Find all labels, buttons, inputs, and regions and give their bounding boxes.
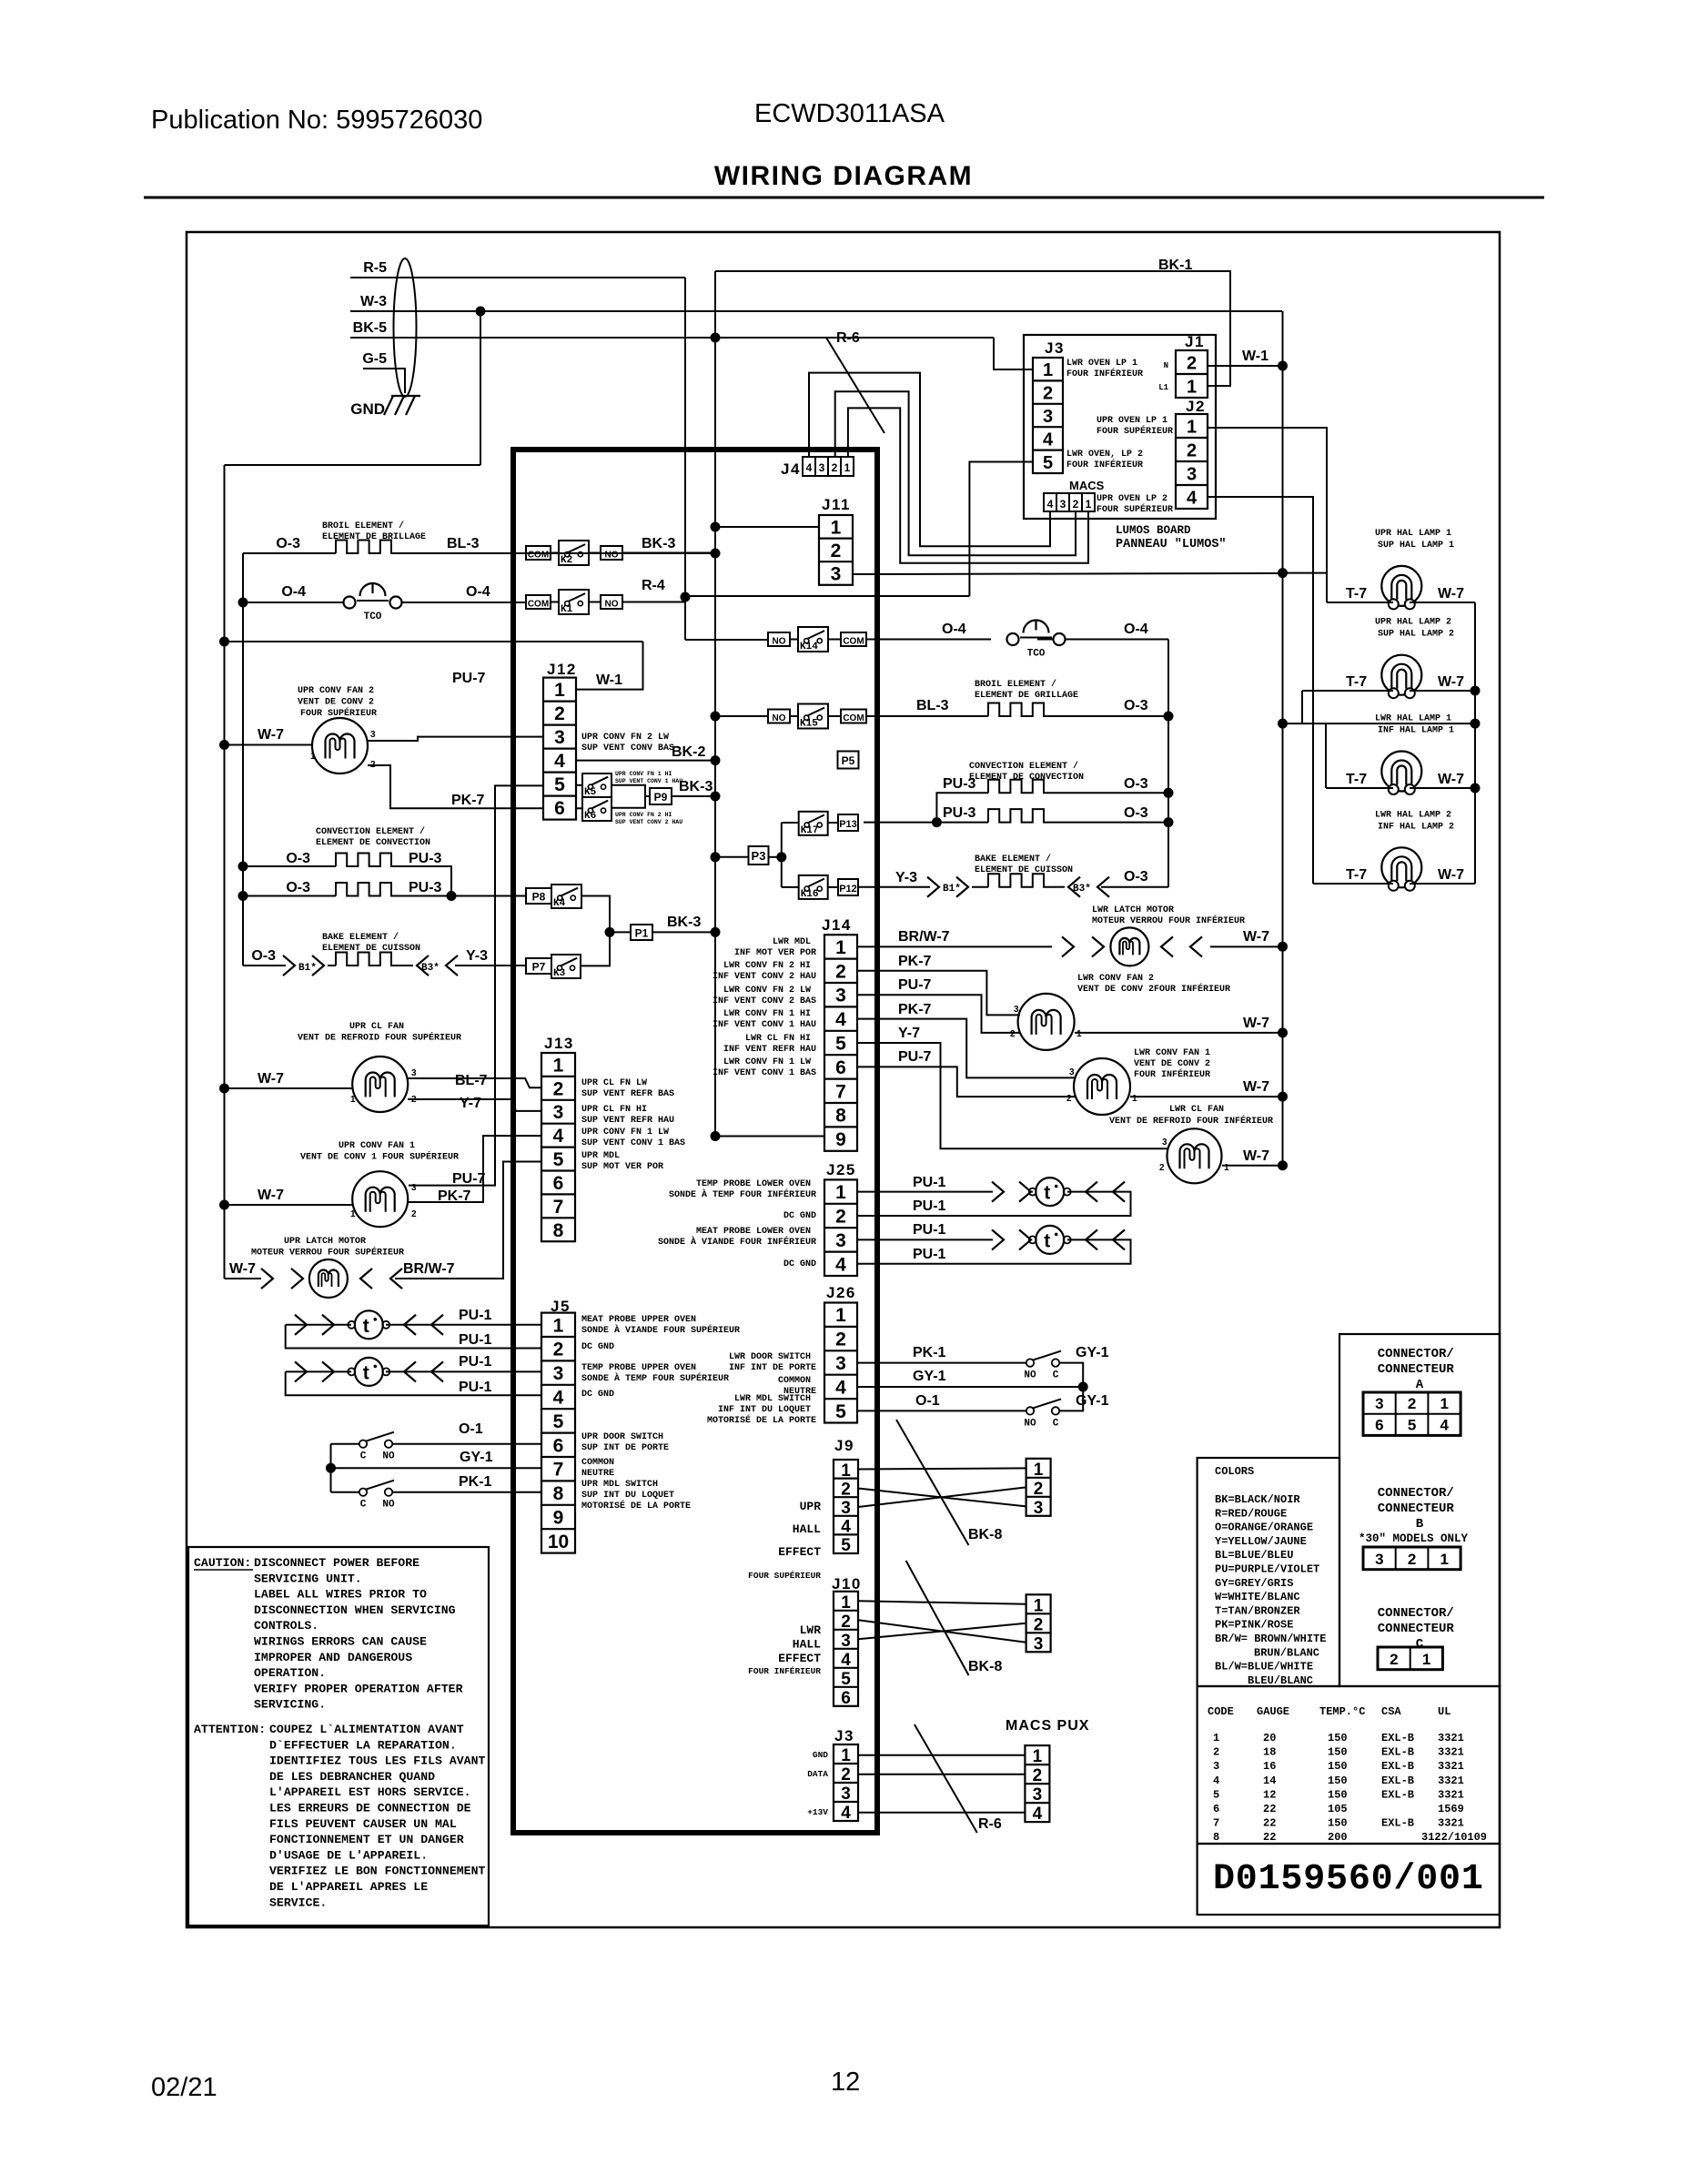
svg-text:NO: NO — [382, 1500, 395, 1511]
svg-text:LWR CL FAN: LWR CL FAN — [1169, 1105, 1224, 1115]
svg-text:J3: J3 — [1045, 339, 1065, 357]
svg-text:J10: J10 — [832, 1575, 862, 1592]
svg-text:W-7: W-7 — [1438, 772, 1464, 787]
TCO upper — [344, 583, 402, 622]
svg-text:1: 1 — [553, 1056, 564, 1077]
svg-text:O-3: O-3 — [251, 948, 276, 964]
wire O-3 broil element row (upper oven) — [243, 541, 715, 554]
svg-text:Y-7: Y-7 — [898, 1026, 920, 1041]
svg-text:PU-1: PU-1 — [459, 1380, 492, 1395]
svg-text:COMMON NEUTRE: COMMON NEUTRE — [581, 1458, 620, 1479]
svg-text:6: 6 — [553, 1173, 564, 1194]
wire J11-3 to lamp feed — [853, 573, 1283, 574]
svg-text:1: 1 — [1422, 1651, 1430, 1668]
svg-text:PK-7: PK-7 — [898, 1002, 932, 1017]
svg-text:2: 2 — [553, 1340, 564, 1360]
relay K3 — [551, 955, 581, 979]
svg-text:2: 2 — [1408, 1551, 1416, 1568]
svg-text:5: 5 — [835, 1401, 846, 1422]
svg-text:3: 3 — [1014, 1005, 1019, 1015]
svg-text:R-5: R-5 — [363, 260, 387, 276]
svg-text:PU-7: PU-7 — [452, 1171, 486, 1187]
wire J5-3 temp probe loop — [286, 1371, 541, 1395]
wire J12-5 to UPR CONV FAN 1 pin3 (PU-7) — [409, 785, 543, 1185]
svg-text:1: 1 — [841, 1746, 851, 1765]
svg-text:O-1: O-1 — [915, 1393, 940, 1409]
svg-text:UPR CONV FN 2 HI SUP VENT CONV: UPR CONV FN 2 HI SUP VENT CONV 2 HAU — [615, 812, 682, 825]
wire P1 BK-3 to trunk — [652, 931, 715, 933]
arrows meat probe upper — [295, 1315, 443, 1335]
svg-text:8: 8 — [835, 1106, 846, 1127]
motor LWR CONV FAN 2 — [1018, 994, 1075, 1050]
wire J9-1 to mate-1 — [858, 1468, 1026, 1469]
motor LWR LATCH MOTOR — [1110, 927, 1148, 966]
svg-text:J13: J13 — [544, 1035, 574, 1052]
svg-text:4: 4 — [806, 461, 813, 474]
trunk W-3/W-1 right x=1409.5 — [1278, 311, 1288, 1170]
svg-text:C: C — [360, 1500, 367, 1511]
wire J14-1 BR/W-7 lower latch row — [857, 945, 1283, 947]
wire J9-2 to mate-3 (cross) — [858, 1489, 1026, 1507]
arrows lower latch right — [1161, 936, 1202, 956]
svg-text:4: 4 — [841, 1518, 851, 1537]
wire J3-4 to MACS PUX 4 — [858, 1812, 1025, 1814]
svg-text:BK-8: BK-8 — [968, 1659, 1002, 1674]
svg-text:1: 1 — [1440, 1551, 1449, 1568]
meat probe lower oven — [1029, 1226, 1071, 1254]
svg-text:W-7: W-7 — [1243, 1016, 1269, 1031]
svg-text:BL/W=BLUE/WHITE: BL/W=BLUE/WHITE — [1215, 1661, 1313, 1673]
wires K5/K6 to P9 — [576, 785, 650, 809]
svg-text:2: 2 — [1187, 441, 1197, 461]
svg-text:K4: K4 — [553, 898, 566, 909]
svg-text:PU-3: PU-3 — [943, 805, 976, 821]
svg-text:LWR LATCH MOTOR: LWR LATCH MOTOR — [1092, 905, 1174, 915]
connector J3 (Lumos) — [1033, 358, 1063, 473]
trunk R-5 x=753.4 — [681, 278, 691, 640]
svg-text:P13: P13 — [839, 819, 857, 830]
temp probe upper oven — [348, 1358, 389, 1386]
wire P3 junction riser — [711, 823, 787, 887]
wire conv row2 lower — [864, 809, 1168, 827]
wire J4-2 to MACS-2 — [835, 391, 1076, 555]
svg-text:W-7: W-7 — [1243, 1148, 1269, 1164]
svg-text:COM: COM — [528, 600, 549, 610]
svg-text:NO: NO — [1024, 1418, 1036, 1429]
svg-text:LWR CONV FAN 1 VENT DE CONV 2: LWR CONV FAN 1 VENT DE CONV 2 FOUR INFÉR… — [1134, 1048, 1216, 1080]
arrows upper latch left — [261, 1269, 303, 1289]
connector J13 — [541, 1053, 575, 1241]
svg-text:3: 3 — [1043, 407, 1053, 427]
svg-text:4: 4 — [553, 1126, 564, 1147]
svg-text:3: 3 — [553, 1363, 564, 1384]
svg-text:EFFECT: EFFECT — [778, 1652, 821, 1665]
svg-text:W-7: W-7 — [258, 1188, 284, 1203]
wire J5-8 mdl switch PK-1 — [392, 1491, 541, 1493]
svg-text:K1: K1 — [561, 604, 573, 615]
wire K17-P13 row — [782, 822, 838, 824]
svg-text:t: t — [1044, 1183, 1050, 1204]
riser lamp1 x=1458 — [1326, 428, 1328, 602]
trunk left (W-7 common) x=246.5 — [219, 465, 229, 1279]
svg-text:MACS: MACS — [1069, 479, 1105, 492]
svg-text:3: 3 — [1187, 465, 1197, 485]
cable bundle ellipse — [394, 258, 417, 397]
switch LWR MDL SWITCH — [1024, 1399, 1061, 1429]
wire J12-6 PK-7 from UPR CONV FAN 2 pin2 — [368, 765, 543, 808]
svg-text:6: 6 — [1375, 1417, 1383, 1434]
svg-text:4: 4 — [1033, 1805, 1043, 1824]
svg-text:1: 1 — [1440, 1395, 1449, 1412]
svg-text:3: 3 — [411, 1068, 417, 1078]
svg-text:3: 3 — [411, 1183, 417, 1193]
connector J11 — [819, 515, 853, 585]
svg-text:7: 7 — [553, 1197, 564, 1218]
svg-text:1: 1 — [1034, 1596, 1044, 1615]
svg-text:J4: J4 — [781, 460, 801, 478]
svg-text:6: 6 — [835, 1057, 846, 1078]
svg-text:3: 3 — [841, 1632, 851, 1651]
wire J10-3 to mate-2 (cross) — [858, 1623, 1026, 1640]
svg-text:C: C — [1053, 1418, 1059, 1429]
svg-text:1: 1 — [1033, 1747, 1043, 1766]
wire J14-3 PU-7 to LWR CONV FAN 2 pin2 — [857, 995, 1020, 1033]
svg-text:1: 1 — [835, 1182, 846, 1203]
svg-text:J1: J1 — [1185, 333, 1205, 350]
svg-text:J2: J2 — [1186, 398, 1206, 415]
svg-text:P5: P5 — [842, 754, 855, 767]
relay K16 — [799, 875, 828, 900]
CAUTION text block — [194, 1556, 492, 1909]
svg-text:PK-1: PK-1 — [913, 1345, 946, 1360]
wire J2-4 to lamp4 riser — [1208, 497, 1313, 884]
svg-text:2: 2 — [554, 703, 565, 724]
connector J9 mate — [1026, 1459, 1051, 1518]
svg-text:PU-1: PU-1 — [459, 1332, 492, 1348]
motor UPR CL FAN — [352, 1057, 408, 1112]
outer diagram border — [187, 232, 1500, 1927]
svg-text:TCO: TCO — [364, 612, 382, 622]
slash BK-8 (J10) — [906, 1561, 969, 1675]
svg-text:9: 9 — [835, 1129, 846, 1150]
slash R-6 (top) — [826, 338, 884, 433]
wire lamp2 pins — [1302, 690, 1475, 692]
svg-text:Y-7: Y-7 — [460, 1096, 481, 1111]
svg-text:3: 3 — [1069, 1067, 1075, 1077]
wire J14-4 PK-7 to LWR CONV FAN 1 pin3 — [857, 1019, 1076, 1078]
NO box K2 — [601, 546, 622, 561]
node broil/trunk lower — [1164, 712, 1174, 722]
svg-text:HALL: HALL — [793, 1638, 821, 1652]
wire K1 row to R-5 trunk and J3-5 riser — [551, 596, 969, 602]
svg-text:2: 2 — [835, 1330, 846, 1350]
svg-text:LWR CONV FN 2 HI INF VENT CONV: LWR CONV FN 2 HI INF VENT CONV 2 HAU — [713, 961, 816, 982]
connector legend box — [1339, 1334, 1500, 1686]
svg-text:P3: P3 — [752, 849, 766, 863]
svg-text:K15: K15 — [800, 719, 818, 730]
svg-text:4: 4 — [835, 1377, 846, 1398]
switch UPR MDL SWITCH — [359, 1481, 395, 1511]
svg-text:GY-1: GY-1 — [460, 1450, 493, 1465]
lamp UPR HAL LAMP 2 — [1381, 655, 1421, 699]
wire J25-3 meat probe lower loop — [857, 1239, 1131, 1263]
svg-text:5: 5 — [553, 1149, 564, 1170]
wire conv element row1 (upper) — [243, 854, 451, 896]
connector J4 — [803, 457, 854, 476]
svg-text:4: 4 — [1440, 1417, 1450, 1434]
svg-text:2: 2 — [411, 1209, 417, 1219]
connector J3 (board) — [834, 1744, 858, 1823]
title rule — [144, 197, 1544, 199]
connector J9 — [834, 1460, 858, 1555]
svg-text:K17: K17 — [801, 825, 819, 836]
svg-text:4: 4 — [1047, 498, 1054, 511]
svg-text:O-3: O-3 — [286, 880, 310, 895]
svg-text:2: 2 — [1010, 1029, 1016, 1039]
CONNECTOR B legend — [1359, 1486, 1469, 1570]
svg-text:VENT DE REFROID FOUR INFÉRIEUR: VENT DE REFROID FOUR INFÉRIEUR — [1109, 1114, 1273, 1127]
relay K17 — [799, 812, 828, 836]
svg-text:C: C — [1053, 1370, 1059, 1381]
svg-text:DC GND: DC GND — [581, 1342, 614, 1352]
svg-text:2: 2 — [841, 1480, 851, 1499]
svg-text:ECWD3011ASA: ECWD3011ASA — [754, 99, 945, 128]
wire J3-1 to MACS PUX 1 — [858, 1754, 1025, 1756]
svg-text:O-4: O-4 — [942, 622, 966, 637]
svg-text:W-7: W-7 — [1438, 586, 1464, 602]
wire W-7 to UPR CONV FAN 1 — [225, 1204, 353, 1206]
wire J26-4 GY-1 common — [857, 1382, 1088, 1392]
COM box K15 — [841, 710, 866, 724]
svg-text:5: 5 — [554, 774, 565, 795]
svg-text:UPR DOOR SWITCH SUP INT DE POR: UPR DOOR SWITCH SUP INT DE PORTE — [581, 1432, 669, 1453]
svg-text:PANNEAU "LUMOS": PANNEAU "LUMOS" — [1116, 538, 1227, 551]
svg-text:Y-3: Y-3 — [895, 870, 917, 885]
svg-text:P9: P9 — [654, 791, 668, 804]
svg-text:1: 1 — [350, 1209, 356, 1219]
COM box K14 — [841, 632, 866, 647]
wire BK-1 to Lumos J1-L1 — [715, 271, 1230, 386]
svg-text:5: 5 — [841, 1670, 851, 1689]
svg-text:O-4: O-4 — [281, 584, 306, 600]
wire bake row (upper oven) — [243, 953, 526, 966]
arrow B3* lower — [1068, 877, 1109, 897]
svg-text:5: 5 — [841, 1536, 851, 1555]
svg-text:J3: J3 — [834, 1727, 854, 1744]
temp probe lower oven — [1029, 1178, 1071, 1206]
svg-text:DATA: DATA — [807, 1769, 828, 1779]
svg-text:PU-1: PU-1 — [913, 1198, 946, 1214]
svg-text:P8: P8 — [532, 891, 546, 904]
svg-text:3: 3 — [1162, 1137, 1167, 1148]
wire J10-1 to mate-1 — [858, 1601, 1026, 1604]
svg-text:4: 4 — [835, 1009, 846, 1030]
svg-text:3: 3 — [553, 1102, 564, 1123]
connector J26 — [824, 1303, 857, 1423]
wire lamp3 pins — [1326, 787, 1475, 789]
svg-text:3: 3 — [835, 1230, 846, 1251]
svg-text:P12: P12 — [839, 884, 857, 895]
svg-text:BK-3: BK-3 — [679, 779, 713, 794]
svg-text:LUMOS BOARD: LUMOS BOARD — [1116, 524, 1191, 537]
svg-text:3: 3 — [831, 564, 842, 585]
svg-text:8: 8 — [553, 1483, 564, 1504]
wire J4-1 to MACS-1 — [848, 408, 1088, 562]
connector J12 — [543, 678, 576, 820]
wire J4-4 to MACS-4 — [809, 373, 1050, 547]
wire W-3 supply — [350, 310, 1282, 312]
svg-text:4: 4 — [835, 1254, 846, 1275]
drawing number box — [1198, 1844, 1500, 1915]
svg-text:3: 3 — [370, 730, 376, 740]
svg-text:NO: NO — [382, 1451, 395, 1462]
wire conv element row2 (upper) — [243, 883, 526, 901]
wire lamp4 pins — [1313, 883, 1475, 885]
node W-3 junction at x=528 — [225, 307, 486, 466]
connector J1 — [1176, 350, 1208, 398]
meat probe upper oven — [348, 1310, 389, 1339]
connector J25 — [824, 1179, 857, 1276]
connector MACS PUX — [1025, 1745, 1049, 1824]
wire J14-6 PU-7 to LWR CONV FAN 1 pin2 — [857, 1067, 1076, 1097]
svg-text:O-3: O-3 — [286, 851, 310, 866]
svg-text:T-7: T-7 — [1346, 674, 1367, 690]
svg-text:7: 7 — [835, 1081, 846, 1102]
wire conv row1 lower — [936, 780, 1168, 823]
relay K5 — [582, 773, 612, 798]
arrows lower latch left — [1062, 936, 1104, 956]
svg-text:t: t — [363, 1362, 369, 1383]
svg-text:UPR CONV FN 2 LW SUP VENT CONV: UPR CONV FN 2 LW SUP VENT CONV BAS — [581, 733, 674, 753]
svg-text:BK-3: BK-3 — [642, 536, 675, 551]
wire J3-2 to MACS PUX 2 — [858, 1774, 1025, 1775]
ground symbol GND — [350, 396, 420, 418]
svg-text:K2: K2 — [561, 555, 572, 566]
svg-text:10: 10 — [548, 1532, 569, 1552]
svg-text:UPR: UPR — [800, 1500, 822, 1513]
svg-text:2: 2 — [1043, 384, 1053, 404]
relay K15 — [798, 704, 828, 730]
svg-text:2: 2 — [1034, 1480, 1044, 1499]
svg-text:K3: K3 — [553, 968, 566, 979]
svg-text:B3*: B3* — [1073, 884, 1091, 895]
svg-text:9: 9 — [553, 1508, 564, 1529]
svg-text:1: 1 — [1043, 360, 1053, 380]
wire BL-7 fan to J13-2 — [408, 1078, 541, 1087]
motor UPR LATCH MOTOR — [309, 1259, 348, 1298]
svg-text:BK-5: BK-5 — [353, 320, 387, 336]
svg-text:2: 2 — [370, 760, 376, 770]
svg-text:COM: COM — [843, 637, 864, 647]
svg-text:N: N — [1164, 361, 1168, 370]
wire J14-5 Y-7 to LWR CL FAN pin3 — [857, 1043, 1168, 1148]
svg-text:5: 5 — [1408, 1417, 1416, 1434]
svg-text:L1: L1 — [1158, 383, 1168, 392]
svg-text:K14: K14 — [800, 642, 818, 652]
svg-text:O-3: O-3 — [1124, 805, 1148, 821]
control board (thick box) — [513, 450, 877, 1833]
svg-text:t: t — [1044, 1230, 1050, 1251]
svg-text:3: 3 — [1060, 498, 1066, 511]
svg-text:J11: J11 — [822, 496, 851, 513]
wire J2-1 to lamp1 riser — [1208, 428, 1327, 602]
connector J10 mate — [1026, 1594, 1051, 1653]
wire code table box — [1198, 1686, 1500, 1844]
P13 box — [838, 814, 858, 831]
svg-text:B1*: B1* — [943, 884, 961, 895]
wire J25-1 temp probe lower loop — [857, 1192, 1131, 1216]
svg-text:2: 2 — [1159, 1163, 1165, 1173]
svg-text:BK-2: BK-2 — [672, 744, 705, 760]
COM box K2 — [526, 546, 551, 561]
svg-text:BL-3: BL-3 — [447, 536, 480, 551]
svg-text:4: 4 — [841, 1804, 851, 1823]
svg-text:J9: J9 — [834, 1437, 854, 1454]
svg-text:GY-1: GY-1 — [1076, 1393, 1109, 1409]
wire O-4 TCO row (upper oven) — [243, 602, 526, 603]
svg-text:W-1: W-1 — [596, 672, 622, 688]
arrow B1* (upper bake) — [283, 955, 324, 976]
svg-text:4: 4 — [554, 751, 565, 772]
svg-text:COM: COM — [528, 551, 549, 561]
wire fan LWR CONV 2 pin1 to trunk — [1075, 1032, 1283, 1034]
svg-text:PU-1: PU-1 — [459, 1308, 492, 1323]
svg-text:1: 1 — [1132, 1094, 1137, 1104]
svg-text:2: 2 — [1408, 1395, 1416, 1412]
svg-text:O-3: O-3 — [1124, 776, 1148, 792]
svg-text:2: 2 — [553, 1078, 564, 1099]
wire K3 to P1 junction — [581, 932, 610, 966]
wire BK-5 to Lumos J3-1 — [994, 338, 1033, 369]
svg-text:GND: GND — [350, 400, 385, 418]
motor UPR CONV FAN 1 — [352, 1171, 408, 1227]
arrows upper latch right — [360, 1269, 402, 1289]
arrow B3* (upper bake) — [417, 955, 458, 976]
relay K6 — [582, 797, 612, 822]
wire K14 row — [790, 639, 1168, 641]
wire J10-2 to mate-3 (cross) — [858, 1620, 1026, 1643]
wire J26-3 PK-1 door switch lower — [857, 1363, 1083, 1387]
wire K2 row connections — [551, 552, 715, 554]
svg-text:PU-1: PU-1 — [913, 1222, 946, 1238]
svg-text:MACS PUX: MACS PUX — [1006, 1718, 1089, 1734]
svg-text:2: 2 — [841, 1765, 851, 1785]
svg-text:BK-1: BK-1 — [1158, 258, 1192, 273]
svg-text:4: 4 — [1187, 489, 1198, 509]
svg-text:1: 1 — [1187, 378, 1197, 398]
svg-text:R-4: R-4 — [642, 578, 665, 593]
svg-text:W-7: W-7 — [258, 727, 284, 743]
svg-text:1: 1 — [835, 1305, 846, 1326]
connector J5 — [541, 1313, 575, 1553]
svg-text:1: 1 — [553, 1315, 564, 1336]
arrows temp probe lower — [992, 1182, 1125, 1202]
svg-text:K16: K16 — [801, 889, 819, 900]
svg-text:6: 6 — [841, 1689, 851, 1708]
svg-text:W-7: W-7 — [1438, 867, 1464, 883]
svg-text:GND: GND — [813, 1750, 828, 1760]
svg-text:PU-1: PU-1 — [459, 1354, 492, 1370]
svg-text:J26: J26 — [826, 1284, 856, 1301]
svg-text:J12: J12 — [547, 661, 577, 678]
svg-text:GY-1: GY-1 — [1076, 1345, 1109, 1360]
svg-text:1: 1 — [310, 752, 316, 762]
wire trunkA to K14 feed — [225, 640, 769, 642]
svg-text:BL-3: BL-3 — [916, 698, 949, 713]
svg-text:PK-1: PK-1 — [459, 1474, 492, 1490]
wire Y-7 fan to J13-3 — [408, 1099, 541, 1111]
svg-text:PU-7: PU-7 — [898, 1049, 932, 1065]
